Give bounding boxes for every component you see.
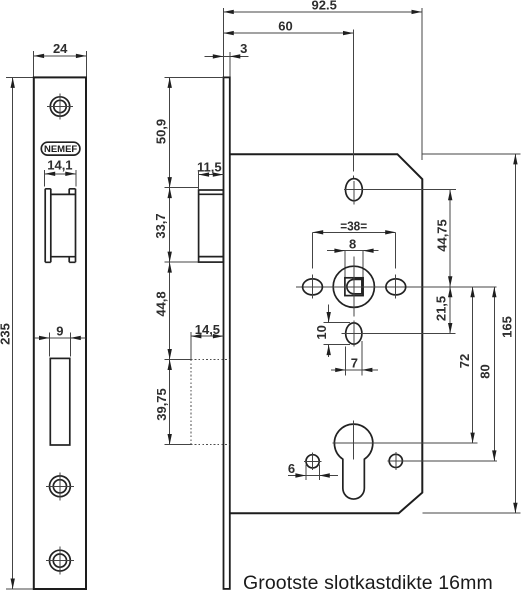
dim 11,5 (latch depth) bbox=[197, 160, 223, 189]
dim 165 (case height) bbox=[499, 154, 517, 513]
extension line 92.5/60/3 left bbox=[222, 8, 224, 77]
dim 72 bbox=[457, 287, 475, 443]
svg-text:39,75: 39,75 bbox=[154, 388, 169, 421]
cylinder centerlines bbox=[333, 421, 478, 460]
dim 10 (oval height) bbox=[314, 305, 350, 358]
faceplate front view outline bbox=[34, 77, 86, 589]
svg-text:44,75: 44,75 bbox=[435, 219, 450, 252]
dim 9 (deadbolt slot width) bbox=[35, 323, 86, 356]
dim 14,1 (latch cutout width) bbox=[45, 158, 76, 187]
oval hole below follower bbox=[342, 321, 456, 347]
screw hole top (crosshair circles) bbox=[47, 93, 73, 119]
dim 44,8 bbox=[154, 262, 172, 359]
svg-text:10: 10 bbox=[314, 325, 329, 339]
svg-text:50,9: 50,9 bbox=[153, 119, 168, 144]
dim 92.5 (case depth overall) bbox=[223, 0, 422, 160]
top fixing hole (oval) bbox=[344, 179, 456, 205]
svg-text:=38=: =38= bbox=[340, 219, 367, 234]
dim 80 bbox=[478, 287, 497, 461]
right hole beside follower bbox=[386, 275, 406, 299]
svg-text:14,1: 14,1 bbox=[47, 158, 72, 173]
screw hole bottom bbox=[46, 547, 74, 575]
faceplate side view strip bbox=[224, 77, 230, 589]
svg-text:14,5: 14,5 bbox=[195, 322, 220, 337]
svg-text:NEMEF: NEMEF bbox=[44, 144, 77, 155]
dim 21,5 bbox=[434, 287, 453, 334]
svg-text:165: 165 bbox=[499, 316, 514, 338]
svg-text:11,5: 11,5 bbox=[197, 160, 222, 175]
euro profile cylinder hole bbox=[334, 424, 372, 499]
follower square hole bbox=[345, 278, 363, 296]
follower circle bbox=[333, 266, 374, 307]
svg-text:80: 80 bbox=[478, 364, 493, 378]
dim 14,5 (deadbolt depth) bbox=[191, 322, 224, 359]
dim 235 (faceplate height) bbox=[0, 77, 34, 589]
follower D insert bbox=[347, 279, 362, 294]
left hole beside follower bbox=[303, 275, 323, 299]
6mm hole left bbox=[304, 453, 322, 471]
follower centerlines bbox=[296, 257, 497, 317]
NEMEF logo bbox=[41, 142, 80, 155]
svg-text:92.5: 92.5 bbox=[312, 0, 337, 12]
svg-text:60: 60 bbox=[278, 19, 292, 34]
dim 39,75 bbox=[154, 360, 191, 445]
latch bolt front view bbox=[45, 189, 75, 262]
deadbolt slot bbox=[50, 358, 70, 445]
svg-text:21,5: 21,5 bbox=[434, 296, 449, 321]
latch bolt side view block bbox=[199, 190, 224, 262]
dim 7 (oval width) bbox=[331, 341, 378, 376]
6mm hole right bbox=[388, 452, 498, 470]
dim 60 (backset) bbox=[223, 19, 353, 179]
extension 165 top bbox=[422, 153, 520, 155]
svg-text:8: 8 bbox=[349, 237, 356, 252]
svg-text:44,8: 44,8 bbox=[154, 291, 169, 316]
dim 24 (faceplate width) bbox=[34, 41, 87, 77]
svg-text:9: 9 bbox=[56, 323, 63, 338]
dim 3 (faceplate thickness) bbox=[205, 41, 249, 77]
svg-text:7: 7 bbox=[351, 356, 358, 371]
dim 8 (follower square) bbox=[327, 237, 379, 278]
svg-text:Grootste slotkastdikte 16mm: Grootste slotkastdikte 16mm bbox=[243, 572, 493, 594]
extension 165 bottom bbox=[422, 512, 520, 514]
svg-text:72: 72 bbox=[457, 354, 472, 368]
dim 6 (hole diameter) bbox=[288, 461, 338, 480]
svg-text:235: 235 bbox=[0, 323, 13, 345]
svg-text:33,7: 33,7 bbox=[153, 213, 168, 238]
dim 44,75 bbox=[435, 190, 453, 287]
screw hole middle bbox=[46, 472, 74, 500]
svg-text:3: 3 bbox=[240, 41, 247, 56]
lock case outline bbox=[230, 154, 422, 513]
svg-text:6: 6 bbox=[288, 461, 295, 476]
dim 50,9 bbox=[153, 77, 223, 187]
svg-text:24: 24 bbox=[53, 41, 68, 56]
deadbolt hidden (dashed) side view bbox=[191, 360, 230, 445]
dim 33,7 bbox=[153, 188, 198, 263]
dim =38= (follower hole spacing) bbox=[313, 219, 396, 269]
